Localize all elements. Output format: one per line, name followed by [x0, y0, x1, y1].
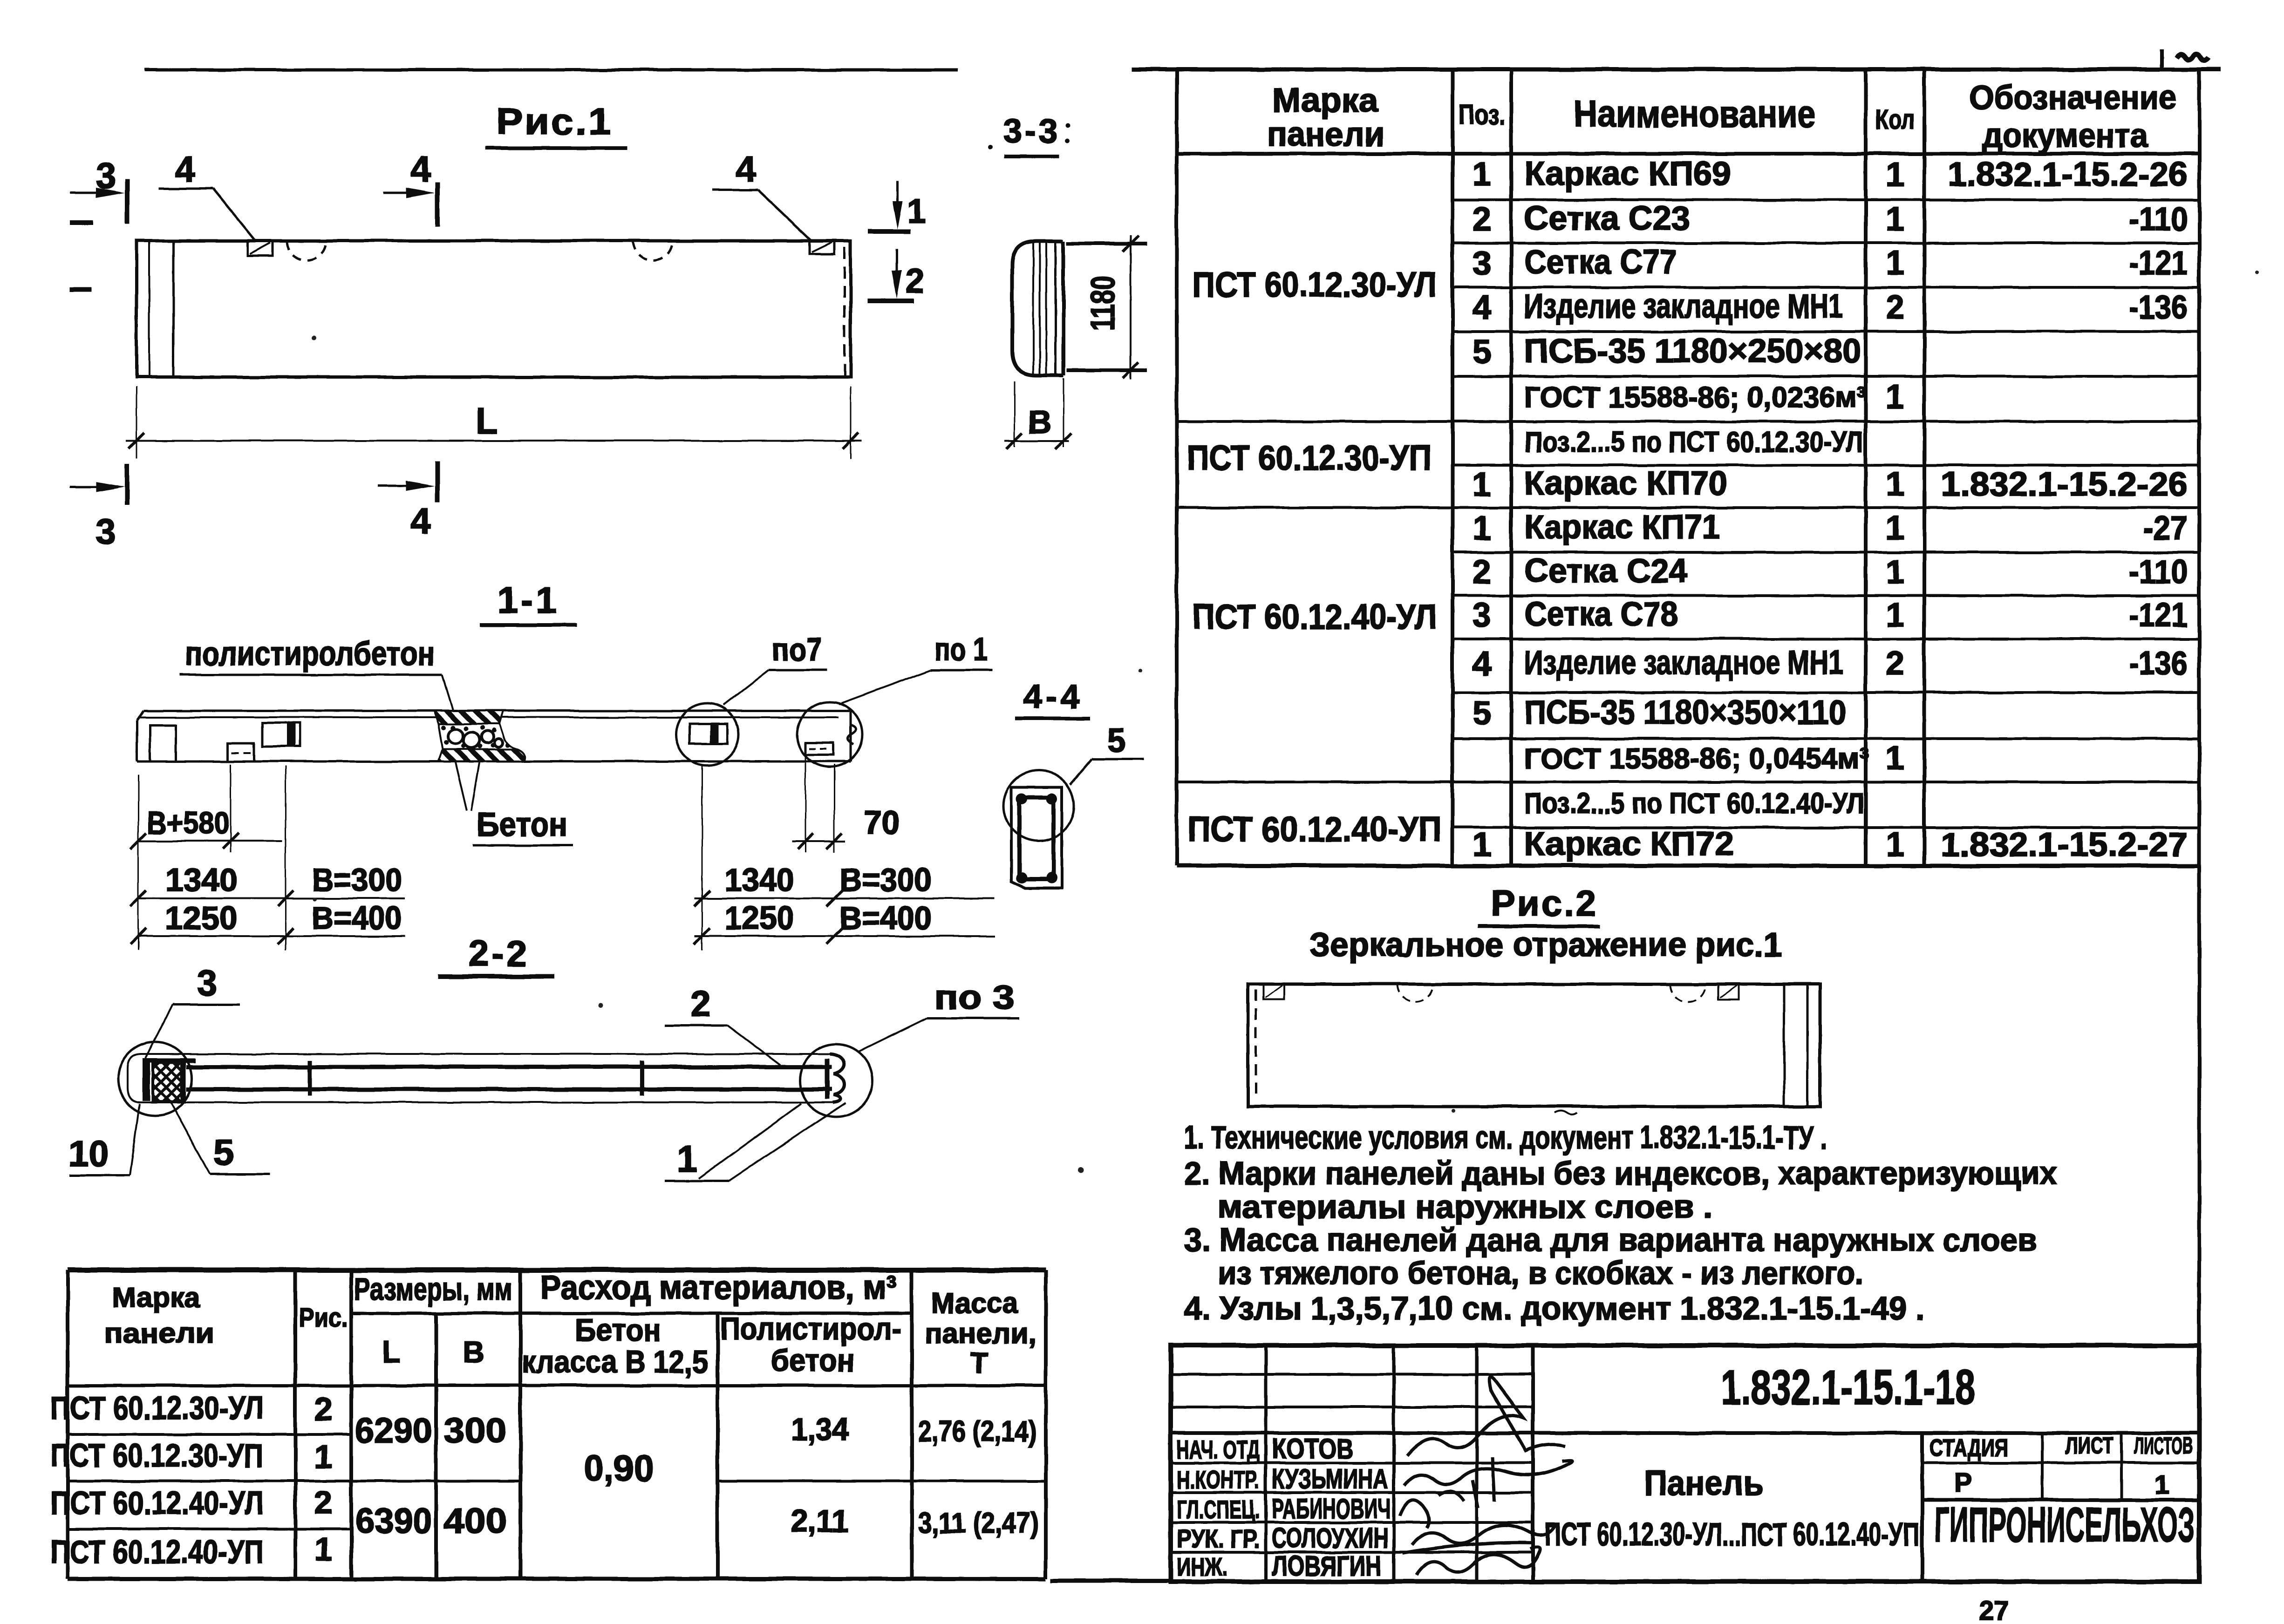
- svg-text:Изделие закладное МН1: Изделие закладное МН1: [1524, 644, 1843, 681]
- svg-text:5: 5: [1107, 722, 1125, 759]
- svg-text:Рис.: Рис.: [299, 1303, 348, 1333]
- svg-text:панели: панели: [105, 1318, 214, 1349]
- svg-text:СОЛОУХИН: СОЛОУХИН: [1272, 1522, 1388, 1554]
- svg-text:2,11: 2,11: [791, 1503, 849, 1539]
- svg-text:РУК. ГР.: РУК. ГР.: [1177, 1524, 1260, 1553]
- svg-text:-110: -110: [2129, 201, 2188, 238]
- svg-text:ПСТ 60.12.30-УП: ПСТ 60.12.30-УП: [1187, 438, 1432, 477]
- svg-text:2: 2: [690, 983, 710, 1024]
- svg-text:1: 1: [1886, 740, 1904, 777]
- svg-text:3: 3: [197, 962, 217, 1003]
- svg-text:L: L: [382, 1335, 401, 1369]
- svg-text:ПСТ 60.12.30-УЛ: ПСТ 60.12.30-УЛ: [1193, 265, 1437, 304]
- svg-text:2: 2: [1473, 201, 1491, 238]
- svg-text:1: 1: [314, 1531, 333, 1567]
- svg-text:-121: -121: [2129, 597, 2188, 634]
- svg-text:документа: документа: [1982, 117, 2148, 155]
- svg-text:Сетка С78: Сетка С78: [1524, 596, 1678, 633]
- svg-text:1: 1: [1473, 156, 1491, 193]
- svg-text:1.832.1-15.2-27: 1.832.1-15.2-27: [1941, 826, 2188, 863]
- svg-text:Т: Т: [970, 1347, 988, 1379]
- svg-text:ИНЖ.: ИНЖ.: [1177, 1552, 1228, 1581]
- svg-text:ЛИСТ: ЛИСТ: [2065, 1433, 2114, 1459]
- svg-text:ЛИСТОВ: ЛИСТОВ: [2134, 1433, 2193, 1459]
- svg-text:-27: -27: [2143, 510, 2188, 547]
- svg-text:2: 2: [314, 1391, 333, 1427]
- svg-text:ЛОВЯГИН: ЛОВЯГИН: [1272, 1550, 1381, 1582]
- svg-text:1: 1: [907, 193, 926, 230]
- svg-text:1: 1: [2154, 1470, 2169, 1500]
- svg-text:Бетон: Бетон: [575, 1312, 661, 1348]
- svg-text:1: 1: [1886, 156, 1904, 193]
- svg-text:1: 1: [1886, 510, 1904, 547]
- svg-text:Обозначение: Обозначение: [1970, 79, 2177, 116]
- svg-text:1340: 1340: [724, 862, 794, 898]
- svg-text:полистиролбетон: полистиролбетон: [185, 635, 435, 673]
- svg-text:Рис.2: Рис.2: [1491, 883, 1598, 924]
- svg-text:Каркас КП72: Каркас КП72: [1524, 825, 1734, 863]
- svg-text:-136: -136: [2129, 645, 2188, 682]
- svg-text:1,34: 1,34: [791, 1412, 849, 1447]
- svg-text:ПСТ 60.12.30-УП: ПСТ 60.12.30-УП: [50, 1437, 264, 1474]
- svg-text:Наименование: Наименование: [1574, 93, 1816, 135]
- svg-text:5: 5: [1473, 333, 1491, 371]
- svg-text:ПСБ-35 1180×350×110: ПСБ-35 1180×350×110: [1524, 694, 1846, 731]
- svg-text:1: 1: [1886, 378, 1904, 415]
- svg-text:Зеркальное отражение рис.1: Зеркальное отражение рис.1: [1309, 926, 1782, 964]
- svg-text:Сетка С24: Сетка С24: [1524, 552, 1687, 590]
- svg-text:1.832.1-15.2-26: 1.832.1-15.2-26: [1948, 156, 2188, 193]
- svg-text:1.832.1-15.2-26: 1.832.1-15.2-26: [1941, 466, 2188, 503]
- svg-text:ПСБ-35 1180×250×80: ПСБ-35 1180×250×80: [1524, 333, 1861, 370]
- svg-text:4-4: 4-4: [1023, 678, 1083, 715]
- svg-text:Полистирол-: Полистирол-: [720, 1311, 901, 1346]
- svg-text:300: 300: [444, 1411, 507, 1450]
- svg-text:10: 10: [68, 1133, 109, 1174]
- svg-text:5: 5: [1473, 695, 1491, 732]
- svg-text:3. Масса панелей дана для вари: 3. Масса панелей дана для варианта наруж…: [1184, 1222, 2037, 1258]
- svg-text:1: 1: [1473, 826, 1491, 863]
- svg-text:Панель: Панель: [1644, 1463, 1764, 1502]
- svg-text:В=300: В=300: [839, 862, 932, 898]
- svg-text:-121: -121: [2129, 245, 2188, 282]
- svg-text:по 3: по 3: [934, 979, 1015, 1016]
- svg-text:1: 1: [677, 1138, 697, 1179]
- svg-text:Поз.2...5 по ПСТ 60.12.40-УЛ: Поз.2...5 по ПСТ 60.12.40-УЛ: [1524, 788, 1864, 820]
- svg-text:класса В 12,5: класса В 12,5: [522, 1344, 708, 1379]
- svg-text:ПСТ 60.12.40-УЛ: ПСТ 60.12.40-УЛ: [50, 1485, 264, 1521]
- svg-text:1: 1: [314, 1439, 333, 1475]
- svg-text:ГОСТ 15588-86; 0,0454м³: ГОСТ 15588-86; 0,0454м³: [1524, 743, 1869, 775]
- svg-text:1250: 1250: [165, 900, 238, 936]
- svg-text:панели: панели: [1267, 116, 1384, 153]
- svg-text:L: L: [476, 400, 498, 441]
- svg-text:2: 2: [1886, 289, 1904, 326]
- svg-text:Бетон: Бетон: [477, 806, 567, 843]
- svg-text:Масса: Масса: [932, 1287, 1018, 1319]
- svg-text:Размеры, мм: Размеры, мм: [354, 1271, 512, 1307]
- svg-text:1-1: 1-1: [497, 579, 559, 621]
- svg-text:2-2: 2-2: [469, 933, 530, 974]
- svg-text:Поз.: Поз.: [1459, 99, 1505, 130]
- svg-text:1: 1: [1886, 245, 1904, 282]
- svg-text:4: 4: [1473, 289, 1491, 326]
- svg-text:1: 1: [1473, 466, 1491, 503]
- svg-text:панели,: панели,: [925, 1318, 1036, 1350]
- svg-text:1: 1: [1886, 553, 1904, 591]
- svg-text:бетон: бетон: [771, 1343, 855, 1378]
- svg-text:1: 1: [1886, 466, 1904, 503]
- svg-text:3: 3: [95, 511, 116, 552]
- svg-text:1: 1: [1886, 597, 1904, 634]
- svg-text:Р: Р: [1954, 1468, 1972, 1498]
- svg-text:1: 1: [1473, 510, 1491, 547]
- svg-text:3: 3: [1473, 597, 1491, 634]
- svg-text:В+580: В+580: [147, 805, 230, 841]
- svg-text:ПСТ 60.12.40-УП: ПСТ 60.12.40-УП: [1188, 809, 1442, 849]
- svg-text:Каркас КП69: Каркас КП69: [1524, 155, 1731, 192]
- svg-text:1250: 1250: [724, 900, 794, 936]
- svg-text:1. Технические условия см. док: 1. Технические условия см. документ 1.83…: [1184, 1119, 1827, 1155]
- svg-text:Марка: Марка: [112, 1282, 201, 1313]
- svg-text:В=400: В=400: [839, 900, 932, 936]
- svg-text:27: 27: [1979, 1596, 2009, 1624]
- svg-text:4: 4: [736, 149, 756, 190]
- svg-text:Расход материалов, м³: Расход материалов, м³: [540, 1269, 897, 1306]
- svg-text:4. Узлы 1,3,5,7,10 см. докумен: 4. Узлы 1,3,5,7,10 см. документ 1.832.1-…: [1184, 1290, 1924, 1326]
- svg-text:по 1: по 1: [934, 631, 988, 667]
- svg-text:ПСТ 60.12.30-УЛ: ПСТ 60.12.30-УЛ: [50, 1390, 264, 1426]
- svg-text:Н.КОНТР.: Н.КОНТР.: [1177, 1465, 1260, 1494]
- svg-text:Каркас КП71: Каркас КП71: [1524, 509, 1720, 546]
- svg-text:4: 4: [410, 149, 430, 190]
- svg-text:ГИПРОНИСЕЛЬХОЗ: ГИПРОНИСЕЛЬХОЗ: [1935, 1498, 2195, 1552]
- svg-text:70: 70: [864, 804, 900, 841]
- svg-text:Поз.2...5 по ПСТ 60.12.30-УЛ: Поз.2...5 по ПСТ 60.12.30-УЛ: [1524, 426, 1863, 458]
- svg-text:ГОСТ 15588-86; 0,0236м³: ГОСТ 15588-86; 0,0236м³: [1524, 381, 1866, 414]
- svg-text:ПСТ 60.12.40-УЛ: ПСТ 60.12.40-УЛ: [1193, 597, 1437, 636]
- svg-text:В=300: В=300: [312, 862, 402, 898]
- svg-text:2. Марки панелей даны без инде: 2. Марки панелей даны без индексов, хара…: [1184, 1155, 2057, 1191]
- svg-text:1: 1: [1886, 201, 1904, 238]
- svg-text:Каркас КП70: Каркас КП70: [1524, 465, 1727, 502]
- svg-text:Кол: Кол: [1875, 104, 1915, 135]
- svg-text:6390: 6390: [355, 1501, 432, 1540]
- svg-text:ПСТ 60.12.40-УП: ПСТ 60.12.40-УП: [50, 1534, 264, 1570]
- svg-text:В: В: [463, 1335, 485, 1369]
- svg-text:2,76 (2,14): 2,76 (2,14): [918, 1415, 1037, 1447]
- svg-text:В=400: В=400: [312, 900, 402, 936]
- svg-text:из тяжелого бетона, в скобках: из тяжелого бетона, в скобках - из легко…: [1218, 1255, 1863, 1291]
- svg-text:КОТОВ: КОТОВ: [1272, 1433, 1354, 1464]
- svg-text:Сетка С23: Сетка С23: [1524, 200, 1690, 237]
- svg-text:400: 400: [444, 1501, 507, 1540]
- svg-text:2: 2: [1473, 553, 1491, 591]
- svg-text:КУЗЬМИНА: КУЗЬМИНА: [1272, 1463, 1388, 1495]
- svg-text:4: 4: [1473, 645, 1491, 682]
- svg-text:2: 2: [906, 263, 924, 300]
- svg-text:1: 1: [1886, 826, 1904, 863]
- svg-text:2: 2: [1886, 645, 1904, 682]
- svg-text:6290: 6290: [355, 1411, 432, 1450]
- svg-text:1340: 1340: [165, 862, 238, 898]
- svg-text:3: 3: [1473, 245, 1491, 282]
- svg-text:Сетка С77: Сетка С77: [1524, 244, 1677, 281]
- svg-text:Марка: Марка: [1272, 82, 1378, 119]
- svg-text:-110: -110: [2129, 553, 2188, 591]
- svg-text:по7: по7: [772, 631, 822, 667]
- svg-text:материалы наружных слоев .: материалы наружных слоев .: [1218, 1189, 1713, 1225]
- svg-text:0,90: 0,90: [584, 1447, 654, 1488]
- svg-text:В: В: [1028, 404, 1052, 440]
- svg-text:СТАДИЯ: СТАДИЯ: [1929, 1434, 2009, 1461]
- svg-text:4: 4: [175, 149, 195, 190]
- svg-text:РАБИНОВИЧ: РАБИНОВИЧ: [1272, 1493, 1391, 1524]
- svg-text:1180: 1180: [1084, 276, 1122, 331]
- svg-text:Рис.1: Рис.1: [496, 101, 613, 142]
- svg-text:ПСТ 60.12.30-УЛ...ПСТ 60.12.40: ПСТ 60.12.30-УЛ...ПСТ 60.12.40-УП: [1545, 1516, 1920, 1552]
- svg-text:Изделие закладное МН1: Изделие закладное МН1: [1524, 288, 1843, 325]
- svg-text:1.832.1-15.1-18: 1.832.1-15.1-18: [1721, 1360, 1975, 1415]
- svg-text:5: 5: [213, 1132, 233, 1173]
- svg-text:НАЧ. ОТД: НАЧ. ОТД: [1177, 1435, 1260, 1464]
- svg-text:4: 4: [410, 501, 430, 542]
- svg-text:3,11 (2,47): 3,11 (2,47): [918, 1507, 1039, 1539]
- svg-text:ГЛ.СПЕЦ.: ГЛ.СПЕЦ.: [1177, 1495, 1260, 1524]
- svg-text:2: 2: [314, 1484, 333, 1521]
- svg-text:-136: -136: [2129, 289, 2188, 326]
- svg-text:3-3: 3-3: [1003, 113, 1060, 150]
